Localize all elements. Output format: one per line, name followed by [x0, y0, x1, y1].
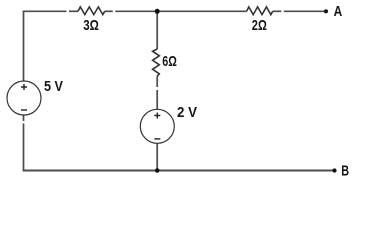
wire middle vertical (6-ohm to gap) — [156, 76, 158, 87]
wire top middle (3-ohm to junction to 2-ohm) — [115, 10, 246, 12]
polarity minus of 2V source — [154, 138, 160, 140]
wire top-left horizontal (corner to 3-ohm lead) — [23, 10, 67, 12]
junction bottom (node on bottom wire) — [155, 168, 160, 173]
polarity plus of 5V source — [21, 84, 27, 90]
svg-text:5 V: 5 V — [44, 78, 63, 95]
resistor 2-ohm (horizontal zigzag) — [247, 7, 273, 15]
wire middle vertical (gap to 2V source top) — [156, 90, 158, 109]
polarity plus of 2V source — [154, 113, 160, 119]
svg-text:6Ω: 6Ω — [162, 53, 177, 70]
wire middle vertical below 2V source — [156, 144, 158, 171]
wire bottom horizontal to node B — [23, 170, 335, 172]
svg-text:2 V: 2 V — [177, 104, 197, 121]
voltage source 2V (circle) — [140, 109, 174, 143]
wire lead left of 3-ohm — [69, 10, 78, 12]
polarity minus of 5V source — [21, 109, 27, 111]
wire middle vertical (junction down to 6-ohm) — [156, 11, 158, 49]
wire top right to node A — [284, 10, 326, 12]
voltage source 5V (circle) — [7, 81, 41, 115]
node B terminal dot — [332, 168, 336, 172]
wire lead right of 2-ohm — [273, 10, 282, 12]
wire lead right of 3-ohm — [105, 10, 113, 12]
svg-text:A: A — [334, 3, 343, 20]
resistor 6-ohm (vertical zigzag) — [153, 49, 160, 76]
svg-text:B: B — [341, 163, 349, 180]
svg-text:2Ω: 2Ω — [252, 17, 267, 34]
wire left vertical below 5V source — [23, 115, 25, 171]
resistor 3-ohm (horizontal zigzag) — [78, 7, 105, 15]
svg-text:3Ω: 3Ω — [83, 17, 99, 34]
junction top (node between 3-ohm, 2-ohm and 6-ohm) — [155, 9, 160, 14]
wire left vertical (top corner down to 5V source) — [23, 11, 25, 82]
node A terminal dot — [324, 9, 328, 13]
